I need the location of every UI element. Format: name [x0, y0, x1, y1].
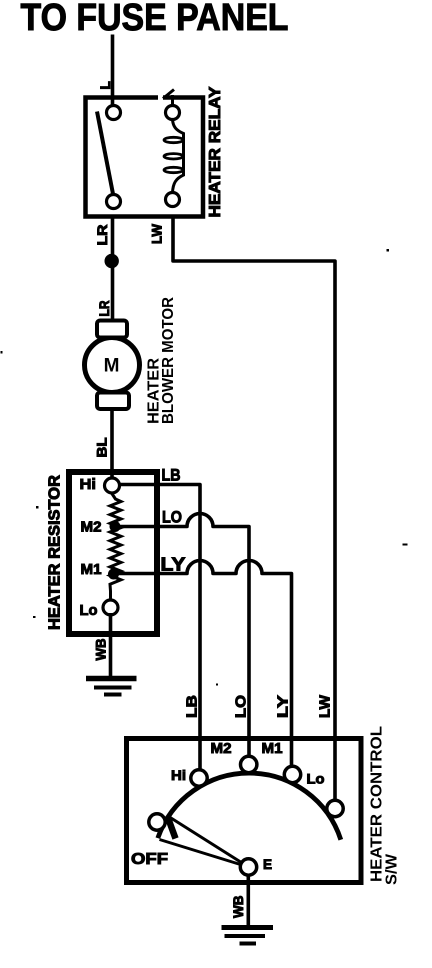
wiper arm: [160, 816, 249, 868]
wire LY (tap M1 to control switch, hops over LB and LO): [116, 561, 292, 768]
ground (resistor): [86, 679, 137, 695]
wire BL (motor to resistor): [110, 409, 114, 480]
svg-text:BLOWER MOTOR: BLOWER MOTOR: [160, 297, 177, 424]
svg-text:M2: M2: [211, 740, 232, 757]
control terminal OFF: [149, 814, 165, 830]
svg-text:LY: LY: [275, 695, 292, 718]
svg-text:LB: LB: [184, 695, 201, 718]
svg-text:WB: WB: [230, 896, 246, 919]
svg-text:M2: M2: [81, 519, 102, 536]
control switch arc: [158, 773, 341, 840]
relay coil: [164, 120, 184, 193]
wire WB (control switch to ground): [247, 874, 251, 926]
relay switch blade: [97, 112, 114, 197]
motor brush top: [97, 321, 127, 338]
ground (control switch): [222, 928, 274, 944]
resistor terminal Lo: [103, 600, 118, 615]
svg-text:LO: LO: [162, 508, 182, 527]
motor body: [85, 338, 140, 393]
wire L (fuse panel to relay): [111, 35, 115, 107]
resistor element: [110, 493, 121, 601]
wire LW (relay to heater control switch): [173, 215, 335, 801]
motor brush bottom: [97, 393, 129, 410]
wire WB (resistor to ground): [109, 613, 113, 678]
wire LB (tap Hi to control switch): [112, 485, 200, 772]
svg-text:LW: LW: [149, 223, 165, 244]
wire LR (relay to junction to motor): [111, 215, 115, 321]
svg-text:LR: LR: [94, 225, 110, 246]
control terminal M2: [241, 756, 257, 772]
svg-text:Hi: Hi: [80, 476, 97, 493]
control terminal M1: [284, 766, 300, 782]
relay switch contact top: [107, 106, 121, 120]
heater relay box: [86, 90, 204, 217]
svg-text:L: L: [98, 81, 113, 89]
relay switch contact bottom: [107, 195, 121, 209]
svg-text:E: E: [263, 857, 272, 872]
svg-text:OFF: OFF: [131, 851, 168, 868]
control terminal Lo: [327, 800, 343, 816]
svg-text:M1: M1: [81, 561, 102, 578]
relay coil terminal top: [166, 106, 180, 120]
wire LO (tap M2 to control switch, hops over LB): [116, 514, 250, 758]
label HEATER BLOWER MOTOR: [146, 297, 178, 424]
svg-text:M1: M1: [262, 740, 283, 757]
svg-text:LB: LB: [162, 466, 181, 485]
heater resistor box: [69, 472, 157, 634]
control terminal E: [240, 859, 256, 875]
svg-text:WB: WB: [93, 639, 109, 661]
svg-text:Lo: Lo: [307, 771, 325, 787]
svg-text:HEATER RELAY: HEATER RELAY: [207, 86, 224, 218]
svg-text:LY: LY: [161, 555, 186, 575]
heater blower motor: [85, 321, 140, 410]
control terminal Hi: [191, 770, 207, 786]
resistor terminal Hi: [105, 478, 120, 493]
resistor tap M1: [108, 569, 119, 580]
svg-text:LW: LW: [317, 694, 334, 718]
heater control switch box: [127, 739, 362, 883]
junction node: [105, 254, 119, 268]
svg-text:BL: BL: [94, 437, 110, 457]
svg-text:HEATER RESISTOR: HEATER RESISTOR: [47, 475, 64, 630]
svg-text:Lo: Lo: [80, 602, 98, 619]
label HEATER CONTROL S/W: [369, 726, 401, 885]
resistor tap M2: [110, 521, 121, 532]
relay coil terminal bottom: [166, 193, 180, 207]
svg-text:LO: LO: [233, 695, 250, 718]
svg-text:Hi: Hi: [171, 767, 186, 783]
svg-text:M: M: [104, 356, 120, 377]
svg-text:TO FUSE PANEL: TO FUSE PANEL: [21, 0, 289, 39]
svg-text:LR: LR: [96, 301, 112, 317]
svg-text:S/W: S/W: [384, 854, 401, 885]
